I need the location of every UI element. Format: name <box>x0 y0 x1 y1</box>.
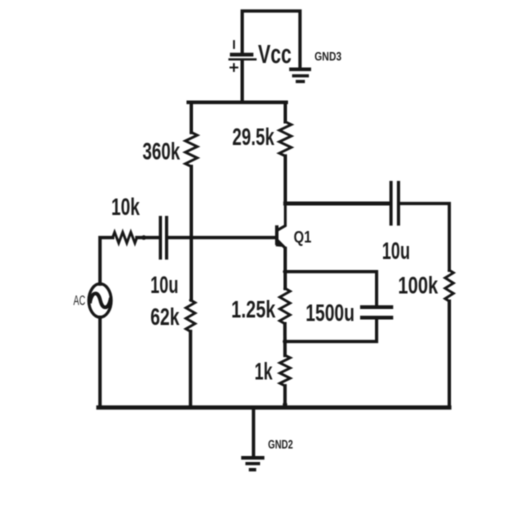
svg-text:360k: 360k <box>143 138 181 165</box>
resistor 1k <box>280 355 290 386</box>
wire base <box>168 236 276 239</box>
label GND3 <box>315 51 342 63</box>
wire bypass loop bottom <box>285 320 376 342</box>
svg-text:29.5k: 29.5k <box>232 124 274 151</box>
svg-text:10u: 10u <box>150 272 178 299</box>
wire 62k to ground rail <box>189 332 192 408</box>
label 10k <box>111 194 140 221</box>
wire 1.25k to 1k <box>283 324 287 356</box>
resistor 62k <box>186 300 195 332</box>
ground GND3 <box>291 69 309 81</box>
node dot emitter <box>283 269 288 274</box>
svg-text:Vcc: Vcc <box>258 41 292 69</box>
label 62k <box>150 304 179 331</box>
label 10u output <box>382 238 410 265</box>
wire 10k to input capacitor <box>137 236 159 239</box>
svg-text:100k: 100k <box>398 273 438 300</box>
wire 1k to rail <box>283 386 286 408</box>
wire top loop battery to GND3 <box>242 11 300 68</box>
label Q1 <box>294 228 312 246</box>
label 29.5k <box>232 124 274 151</box>
wire bus to 360k <box>190 102 193 132</box>
label 1k <box>255 359 273 386</box>
node dot rail <box>283 402 288 407</box>
label GND2 <box>268 440 293 452</box>
battery V1 (Vcc) <box>230 41 256 71</box>
label 360k <box>143 138 181 165</box>
wire 100k to rail <box>448 301 451 407</box>
node dot bypass bottom <box>283 339 288 344</box>
wire ground rail <box>98 405 449 409</box>
wire output capacitor to 100k <box>400 204 449 271</box>
ground GND2 <box>243 408 263 470</box>
svg-text:GND3: GND3 <box>315 51 342 63</box>
node dot base junction <box>189 235 194 240</box>
label 1.25k <box>231 296 276 323</box>
capacitor C1 10u input <box>160 218 166 259</box>
svg-text:1500u: 1500u <box>306 300 355 327</box>
resistor 29.5k <box>279 122 291 156</box>
svg-text:1.25k: 1.25k <box>231 296 276 323</box>
svg-text:GND2: GND2 <box>268 440 293 452</box>
wire 360k to base node to 62k <box>190 167 193 301</box>
label 10u input <box>150 272 178 299</box>
svg-text:10u: 10u <box>382 238 410 265</box>
wire collector to output capacitor <box>285 202 388 206</box>
resistor 1.25k <box>280 288 290 323</box>
svg-text:10k: 10k <box>111 194 140 221</box>
wire bypass loop top <box>285 272 376 306</box>
wire input corner to 10k <box>100 238 113 284</box>
svg-text:1k: 1k <box>255 359 273 386</box>
resistor 360k <box>185 132 197 166</box>
resistor 100k <box>445 270 453 301</box>
wire 29.5k to collector node <box>284 156 287 204</box>
transistor Q1 <box>276 204 286 256</box>
label 100k <box>398 273 438 300</box>
node dot input <box>142 235 147 240</box>
source V2 AC <box>89 284 111 317</box>
wire bus to 29.5k <box>284 102 287 122</box>
resistor 10k <box>113 232 137 243</box>
wire emitter to 1.25k <box>284 248 287 288</box>
label AC <box>73 293 85 308</box>
label Vcc <box>258 41 292 69</box>
wire top bus <box>188 101 286 105</box>
capacitor C2 10u output <box>391 183 399 225</box>
wire AC to rail <box>98 317 101 407</box>
svg-text:Q1: Q1 <box>294 228 312 246</box>
svg-text:AC: AC <box>73 293 85 308</box>
capacitor C3 1500u bypass <box>362 307 391 318</box>
wire battery to top bus <box>240 61 243 103</box>
label 1500u <box>306 300 355 327</box>
svg-text:62k: 62k <box>150 304 179 331</box>
